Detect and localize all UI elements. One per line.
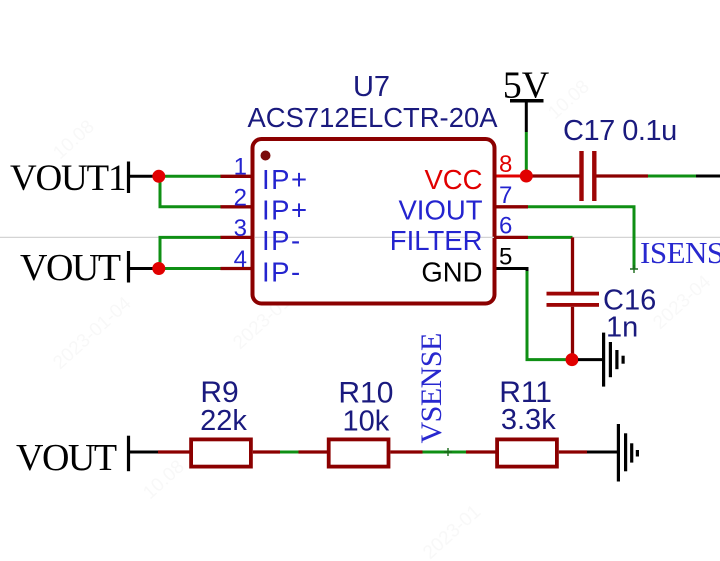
pin 6 lead — [497, 236, 529, 239]
wire 5V down black — [525, 102, 528, 132]
svg-text:1: 1 — [234, 154, 247, 181]
svg-text:8: 8 — [499, 151, 512, 178]
port VOUT bar (upper) — [127, 251, 130, 283]
IC U7 body — [253, 139, 495, 304]
wire FILTER down to C16 — [571, 237, 574, 292]
pin 3 lead — [221, 236, 251, 239]
pin 4 lead — [221, 267, 251, 270]
resistor R10 body — [329, 439, 389, 466]
wire VOUT to pin4 — [159, 267, 221, 270]
capacitor C17 right plate — [592, 151, 596, 201]
pin 1 lead — [221, 175, 251, 178]
wire VIOUT green — [528, 207, 634, 269]
svg-text:10k: 10k — [343, 406, 390, 438]
wire C17 right green — [648, 175, 696, 178]
pin 8 lead VCC — [497, 175, 527, 178]
svg-text:VOUT: VOUT — [16, 437, 117, 479]
pin 5 lead GND — [497, 269, 528, 273]
svg-text:7: 7 — [499, 182, 512, 209]
svg-text:VOUT1: VOUT1 — [10, 158, 125, 199]
capacitor C17 left plate — [579, 151, 583, 201]
capacitor C16 top plate — [547, 292, 600, 296]
wire R9-R10 maroon a — [253, 450, 280, 453]
wire C16 bottom — [571, 307, 574, 360]
wire R10-R11 maroon a — [390, 450, 422, 453]
svg-text:IP-: IP- — [262, 256, 302, 287]
wire VOUT stub black — [130, 451, 158, 454]
svg-text:IP-: IP- — [262, 225, 302, 256]
wire R11 to ground black — [587, 451, 617, 454]
pin 2 lead — [221, 205, 251, 208]
svg-text:VOUT: VOUT — [20, 247, 121, 289]
wire VOUT1 to pin1 — [159, 175, 221, 178]
svg-text:1n: 1n — [606, 312, 638, 344]
wire R10-R11 maroon b — [466, 450, 497, 453]
ground symbol (upper) — [604, 333, 624, 387]
wire C17 right maroon — [597, 174, 649, 177]
svg-text:FILTER: FILTER — [390, 225, 483, 256]
resistor R11 body — [497, 439, 557, 466]
IC U7 pin-1 marker dot — [261, 151, 271, 161]
svg-text:VCC: VCC — [424, 164, 482, 195]
svg-text:C17 0.1u: C17 0.1u — [563, 115, 677, 147]
wire R10-R11 green VSENSE — [423, 451, 467, 454]
svg-text:22k: 22k — [200, 405, 247, 437]
pin 7 lead — [497, 205, 529, 208]
svg-text:ISENS: ISENS — [640, 235, 720, 270]
wire VOUT1 port stub — [130, 175, 156, 178]
wire FILTER green — [528, 236, 573, 239]
svg-text:3.3k: 3.3k — [501, 404, 556, 436]
wire VOUT1 to pin2 — [159, 205, 222, 208]
junction GND node — [566, 353, 579, 366]
wire VOUT port stub — [130, 267, 156, 270]
wire VOUT to pin3 — [159, 236, 222, 239]
node ISENS anchor cross — [630, 265, 638, 273]
svg-text:ACS712ELCTR-20A: ACS712ELCTR-20A — [248, 102, 498, 133]
svg-text:6: 6 — [499, 212, 512, 239]
svg-text:4: 4 — [234, 246, 247, 273]
port VOUT1 bar — [127, 162, 130, 194]
wire 5V down green — [525, 132, 528, 176]
wire VOUT up — [159, 237, 162, 268]
wire VOUT to R9 maroon — [158, 450, 191, 453]
svg-text:IP+: IP+ — [262, 164, 309, 195]
svg-text:2: 2 — [234, 184, 247, 211]
wire junction to ground — [578, 358, 603, 361]
svg-text:U7: U7 — [353, 71, 390, 103]
wire R11 to ground maroon — [559, 450, 587, 453]
junction VOUT1 — [152, 170, 165, 183]
wire C17 right black — [696, 175, 720, 178]
ground symbol (lower) — [618, 424, 637, 482]
junction VOUT — [152, 262, 165, 275]
junction VCC node — [520, 170, 533, 183]
capacitor C16 bottom plate — [547, 303, 600, 307]
port VOUT bar (lower) — [127, 436, 130, 472]
node VSENSE anchor cross — [444, 448, 452, 456]
wire VOUT1 down — [159, 176, 162, 207]
wire R9-R10 maroon b — [299, 450, 329, 453]
wire VCC to C17 — [526, 174, 579, 177]
wire R9-R10 green — [280, 451, 299, 454]
supply 5V bar — [510, 99, 544, 103]
svg-text:GND: GND — [421, 256, 482, 287]
svg-text:IP+: IP+ — [262, 195, 309, 226]
svg-text:3: 3 — [234, 215, 247, 242]
svg-text:VIOUT: VIOUT — [398, 195, 482, 226]
svg-text:VSENSE: VSENSE — [415, 333, 448, 443]
resistor R9 body — [191, 439, 251, 466]
wire GND green — [527, 271, 570, 360]
svg-text:5: 5 — [499, 244, 512, 271]
